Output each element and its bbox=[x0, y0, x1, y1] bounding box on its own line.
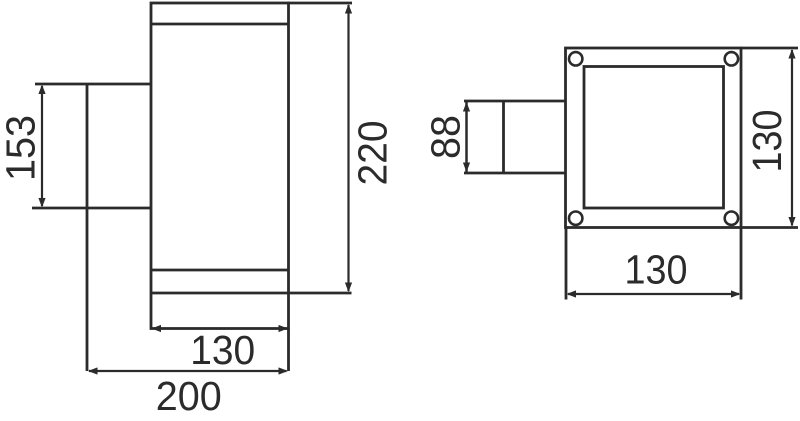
left view: wall plate bottom edge bbox=[32, 207, 151, 210]
arrowhead 130 right (left view) bbox=[279, 325, 289, 332]
right view: bracket divider bbox=[502, 101, 505, 173]
right view: inner square bbox=[584, 67, 724, 209]
right view: screw bottom-left bbox=[569, 212, 582, 225]
left view: right edge extension for 200 bbox=[287, 329, 290, 372]
left view: wall plate top edge bbox=[35, 83, 151, 86]
left view: bottom cap line / 220 extension bbox=[151, 292, 352, 295]
arrowhead 153 up bbox=[38, 85, 45, 95]
dimension line 130 right bbox=[791, 50, 793, 226]
right view: screw top-left bbox=[569, 52, 582, 65]
svg-text:220: 220 bbox=[350, 121, 396, 186]
svg-text:130: 130 bbox=[190, 327, 255, 373]
right view: bracket top edge bbox=[464, 100, 566, 103]
arrowhead 130 bottom left bbox=[567, 290, 577, 297]
svg-text:130: 130 bbox=[625, 247, 688, 293]
dimension line 220 bbox=[347, 5, 349, 291]
svg-text:130: 130 bbox=[744, 110, 790, 173]
left view: top cap line bbox=[151, 23, 289, 26]
arrowhead 88 down bbox=[463, 163, 470, 173]
arrowhead 130 left (left view) bbox=[152, 325, 162, 332]
right view: outer square bbox=[566, 48, 742, 228]
dimension line 153 bbox=[41, 86, 43, 206]
dimension line 130 bottom bbox=[568, 293, 739, 295]
right view: top extension for 130 bbox=[741, 47, 798, 50]
dimension line 200 bbox=[89, 370, 287, 372]
left view: top edge extension for 220 bbox=[289, 2, 353, 5]
svg-text:200: 200 bbox=[156, 373, 222, 419]
right view: right extension for bottom 130 bbox=[740, 228, 743, 300]
right view: screw top-right bbox=[725, 52, 738, 65]
left view: lower band line bbox=[151, 269, 289, 272]
arrowhead 220 down bbox=[345, 283, 352, 293]
arrowhead 88 up bbox=[463, 102, 470, 112]
right view: bottom extension for 130 bbox=[741, 226, 798, 229]
arrowhead 130 right-side down bbox=[788, 217, 795, 227]
arrowhead 130 bottom right bbox=[731, 290, 741, 297]
arrowhead 153 down bbox=[38, 198, 45, 208]
left view: wall plate left edge / 200 extension bbox=[86, 84, 89, 371]
svg-text:88: 88 bbox=[423, 115, 469, 159]
arrowhead 220 up bbox=[345, 4, 352, 14]
arrowhead 200 right bbox=[279, 367, 289, 374]
arrowhead 200 left bbox=[88, 367, 98, 374]
arrowhead 130 right-side up bbox=[788, 49, 795, 59]
left view: lamp body outline bbox=[151, 3, 289, 329]
right view: left extension for bottom 130 bbox=[565, 228, 568, 300]
right view: bracket bottom edge bbox=[464, 172, 566, 175]
svg-text:153: 153 bbox=[0, 115, 44, 181]
dimension line 88 / bracket left edge bbox=[465, 101, 468, 173]
right view: screw bottom-right bbox=[725, 212, 738, 225]
